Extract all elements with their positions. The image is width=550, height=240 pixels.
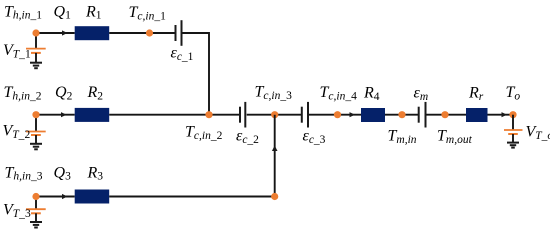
svg-text:Q2: Q2: [55, 84, 73, 102]
svg-text:VT_1: VT_1: [3, 42, 31, 60]
battery V_T_1 lower stem: [35, 53, 37, 63]
wire resistor R2 to capacitor e_c_2: [109, 114, 239, 116]
battery V_T_3 short plate: [31, 212, 41, 214]
svg-text:Q1: Q1: [54, 3, 72, 21]
battery V_T_1 long plate: [26, 48, 46, 50]
svg-text:R1: R1: [85, 3, 102, 21]
svg-text:VT_2: VT_2: [3, 123, 31, 141]
wire resistor R4 to capacitor e_m: [385, 114, 418, 116]
battery V_T_o short plate: [508, 133, 518, 135]
node T_h,in_1: [32, 29, 39, 36]
battery V_T_2 lower stem: [35, 135, 37, 144]
wire resistor R1 to capacitor e_c_1: [109, 32, 175, 34]
capacitor e_c_1 short plate: [175, 25, 177, 41]
node T_c,in_4: [334, 111, 341, 118]
svg-text:Th,in_3: Th,in_3: [5, 164, 43, 182]
svg-text:VT_o: VT_o: [526, 124, 550, 142]
ground (row 3): [30, 222, 42, 228]
resistor Rr: [466, 108, 488, 122]
battery V_T_3 stem: [35, 197, 37, 210]
ground (T_o): [507, 143, 519, 148]
wire capacitor e_c_2 to node T_c,in_3: [247, 114, 301, 116]
resistor R4: [361, 108, 385, 122]
battery V_T_2 long plate: [26, 131, 46, 133]
capacitor e_c_2 short plate: [239, 107, 241, 123]
current arrow Q1: [62, 30, 68, 35]
current arrow into R4: [350, 112, 356, 117]
svg-text:Tc,in_3: Tc,in_3: [255, 84, 293, 102]
capacitor e_c_3 short plate: [301, 107, 303, 123]
svg-text:εm: εm: [414, 85, 429, 103]
svg-text:εc_2: εc_2: [236, 128, 259, 146]
capacitor e_c_1 tall plate: [181, 20, 183, 46]
svg-text:R4: R4: [363, 85, 380, 103]
node T_c,in_2: [205, 111, 212, 118]
battery V_T_3 lower stem: [35, 213, 37, 222]
resistor R2: [75, 108, 110, 122]
svg-text:Q3: Q3: [54, 164, 72, 182]
node T_c,in_1: [146, 29, 153, 36]
wire node T_h,in_3 to resistor R3: [36, 196, 75, 198]
battery V_T_1 short plate: [31, 52, 41, 54]
wire resistor Rr to node T_o: [488, 114, 514, 116]
svg-text:Rr: Rr: [468, 85, 484, 103]
svg-text:Th,in_2: Th,in_2: [4, 84, 42, 102]
battery V_T_o stem: [512, 115, 514, 130]
wire capacitor e_m to resistor Rr: [427, 114, 467, 116]
battery V_T_1 stem: [35, 33, 37, 49]
svg-text:VT_3: VT_3: [3, 202, 31, 220]
capacitor e_m tall plate: [425, 102, 427, 128]
capacitor e_c_3 tall plate: [307, 102, 309, 128]
svg-text:εc_1: εc_1: [171, 45, 194, 63]
battery V_T_o lower stem: [512, 134, 514, 143]
battery V_T_o long plate: [504, 129, 523, 131]
wire junction row3 up to node T_c,in_3: [274, 115, 276, 197]
svg-text:Tm,in: Tm,in: [388, 128, 417, 146]
svg-text:R2: R2: [87, 84, 104, 102]
current arrow Q3: [62, 194, 68, 199]
svg-text:Tc,in_2: Tc,in_2: [185, 124, 223, 142]
svg-text:Th,in_1: Th,in_1: [4, 3, 42, 21]
capacitor e_m short plate: [418, 107, 420, 123]
junction node (row 3 right): [271, 193, 278, 200]
current arrow Q2: [61, 112, 67, 117]
wire resistor R3 to junction below T_c,in_3: [109, 196, 275, 198]
node T_m,in: [398, 111, 405, 118]
resistor R1: [75, 26, 110, 40]
svg-text:Tc,in_1: Tc,in_1: [129, 4, 167, 22]
ground (row 1): [30, 63, 42, 68]
svg-text:R3: R3: [87, 164, 104, 182]
svg-text:To: To: [506, 84, 521, 102]
current arrow into T_o: [502, 112, 508, 117]
ground (row 2): [30, 144, 42, 150]
battery V_T_2 short plate: [31, 134, 41, 136]
node T_h,in_2: [32, 111, 39, 118]
svg-text:Tc,in_4: Tc,in_4: [320, 84, 358, 102]
node T_o: [509, 111, 516, 118]
node T_m,out: [441, 111, 448, 118]
wire node T_h,in_2 to resistor R2: [36, 114, 75, 116]
wire node T_h,in_1 to resistor R1: [36, 32, 75, 34]
wire capacitor e_c_1 to node T_c,in_2 (corner): [183, 33, 210, 115]
battery V_T_2 stem: [35, 115, 37, 132]
node T_c,in_3: [271, 111, 278, 118]
svg-text:εc_3: εc_3: [303, 128, 326, 146]
battery V_T_3 long plate: [26, 208, 46, 210]
capacitor e_c_2 tall plate: [244, 102, 246, 128]
node T_h,in_3: [32, 193, 39, 200]
svg-text:Tm,out: Tm,out: [437, 128, 473, 146]
resistor R3: [75, 190, 110, 204]
wire capacitor e_c_3 to resistor R4: [309, 114, 361, 116]
current arrow up (row3 to T_c,in_3): [272, 146, 278, 152]
